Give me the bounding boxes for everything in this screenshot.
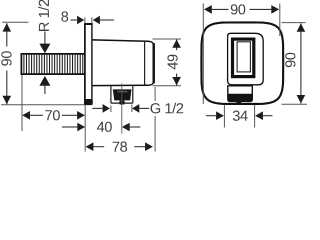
pipe thread hatch bbox=[24, 55, 83, 74]
bottom tab bbox=[228, 86, 253, 102]
dimension 40 bbox=[62, 122, 140, 132]
squircle escutcheon (front view) bbox=[201, 22, 283, 104]
holder plate bbox=[228, 33, 264, 85]
dimension 8 bbox=[61, 11, 114, 24]
label R 1/2 bbox=[38, 0, 49, 31]
dimension 34 bbox=[206, 105, 273, 128]
flange bottom dark foot bbox=[84, 99, 93, 105]
dimension 90 left bbox=[1, 22, 85, 105]
body (holder block, side view) bbox=[93, 40, 154, 86]
holder slot inner bbox=[237, 42, 250, 72]
dimension 70 bbox=[22, 110, 85, 120]
body front face thick line bbox=[152, 43, 154, 84]
dimension 90 right (front view) bbox=[282, 23, 308, 105]
dimension G 1/2 bbox=[92, 103, 183, 114]
holder slot (thick) bbox=[233, 39, 254, 77]
outlet nut (black) bbox=[113, 89, 132, 100]
flange extension stubs bbox=[85, 17, 92, 23]
centerline bbox=[121, 84, 123, 134]
extension line left (wall) for 70 bbox=[21, 75, 23, 131]
pipe outline bbox=[21, 53, 86, 75]
body front contour line bbox=[144, 41, 146, 85]
outlet connector outline bbox=[111, 86, 133, 103]
dimension 78 bbox=[86, 142, 153, 152]
dimension 90 top (front view) bbox=[203, 4, 279, 105]
dimension 49 bbox=[153, 39, 182, 86]
outlet nipple bbox=[119, 100, 124, 104]
extension line body-front for 78 bbox=[154, 87, 156, 152]
escutcheon flange (edge-on) bbox=[84, 24, 93, 105]
bottom nub bbox=[236, 102, 241, 105]
extension line flange-left for 70/40/78 bbox=[84, 105, 86, 152]
leader R 1/2 arrows bbox=[39, 32, 50, 95]
